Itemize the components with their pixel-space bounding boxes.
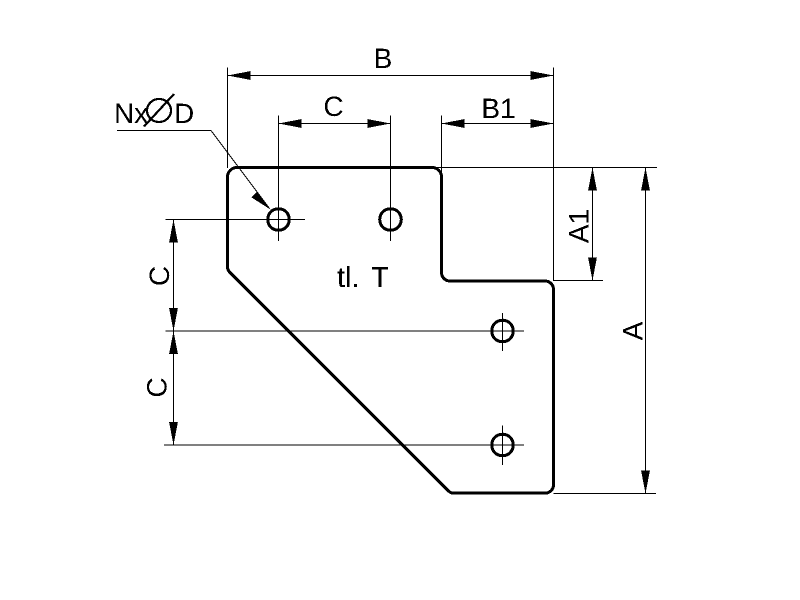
dimension C top left arrow bbox=[279, 119, 302, 128]
dimension B label bbox=[376, 49, 391, 68]
hole H2 vertical centerline bbox=[390, 116, 392, 242]
leader diagonal line bbox=[211, 131, 270, 209]
leader NxOD label text Nx bbox=[116, 104, 148, 123]
left dimension C chain line bbox=[173, 220, 175, 446]
leader NxOD diameter symbol slash bbox=[144, 94, 174, 127]
dimension A1 bottom extension line bbox=[554, 280, 604, 282]
dimension A1 bottom arrow bbox=[588, 258, 597, 281]
top edge extension line right bbox=[434, 167, 657, 169]
dimension A bottom arrow bbox=[641, 471, 650, 494]
leader NxOD label text D bbox=[176, 104, 193, 123]
dimension B1 line bbox=[442, 123, 554, 125]
hole row 2 horizontal centerline bbox=[166, 330, 525, 332]
leader NxOD diameter symbol circle bbox=[147, 99, 171, 122]
dimension B extension line right bbox=[553, 68, 555, 282]
dimension A line bbox=[645, 168, 647, 494]
dimension C top line bbox=[279, 123, 391, 125]
left dimension C1 bottom arrow bbox=[169, 308, 178, 331]
dimension B extension line left bbox=[227, 68, 229, 169]
left dimension C2 bottom arrow bbox=[169, 422, 178, 445]
hole H1 bbox=[268, 209, 290, 231]
dimension B1 extension line left bbox=[441, 116, 443, 173]
dimension B1 right arrow bbox=[531, 119, 554, 128]
hole row 3 horizontal centerline bbox=[164, 444, 524, 446]
dimension A top arrow bbox=[641, 168, 650, 191]
dimension C top right arrow bbox=[368, 119, 391, 128]
dimension A label bbox=[623, 322, 642, 341]
thickness label tl. T bbox=[337, 266, 388, 287]
hole row 1 horizontal centerline bbox=[166, 219, 306, 221]
left dimension C2 label bbox=[147, 378, 167, 396]
hole H1 vertical centerline bbox=[278, 116, 280, 242]
dimension A1 top arrow bbox=[588, 168, 597, 191]
left dimension C1 label bbox=[149, 267, 169, 285]
hole H4 vertical centerline bbox=[502, 426, 504, 466]
dimension C top label bbox=[325, 96, 343, 116]
plate outline bbox=[228, 168, 554, 494]
dimension B right arrow bbox=[531, 71, 554, 80]
dimension A bottom extension line bbox=[554, 493, 657, 495]
dimension B left arrow bbox=[228, 71, 251, 80]
dimension A1 line bbox=[592, 168, 594, 281]
dimension B1 left arrow bbox=[442, 119, 465, 128]
hole H3 bbox=[492, 320, 514, 342]
leader arrowhead bbox=[251, 191, 270, 209]
hole H2 bbox=[380, 209, 402, 231]
left dimension C1 top arrow bbox=[169, 220, 178, 243]
dimension B1 label bbox=[484, 99, 515, 118]
dimension B line bbox=[228, 75, 554, 77]
leader horizontal line bbox=[117, 130, 211, 132]
hole H4 bbox=[492, 434, 514, 456]
hole H3 vertical centerline bbox=[502, 313, 504, 351]
dimension A1 label bbox=[569, 210, 588, 243]
left dimension C2 top arrow bbox=[169, 331, 178, 354]
